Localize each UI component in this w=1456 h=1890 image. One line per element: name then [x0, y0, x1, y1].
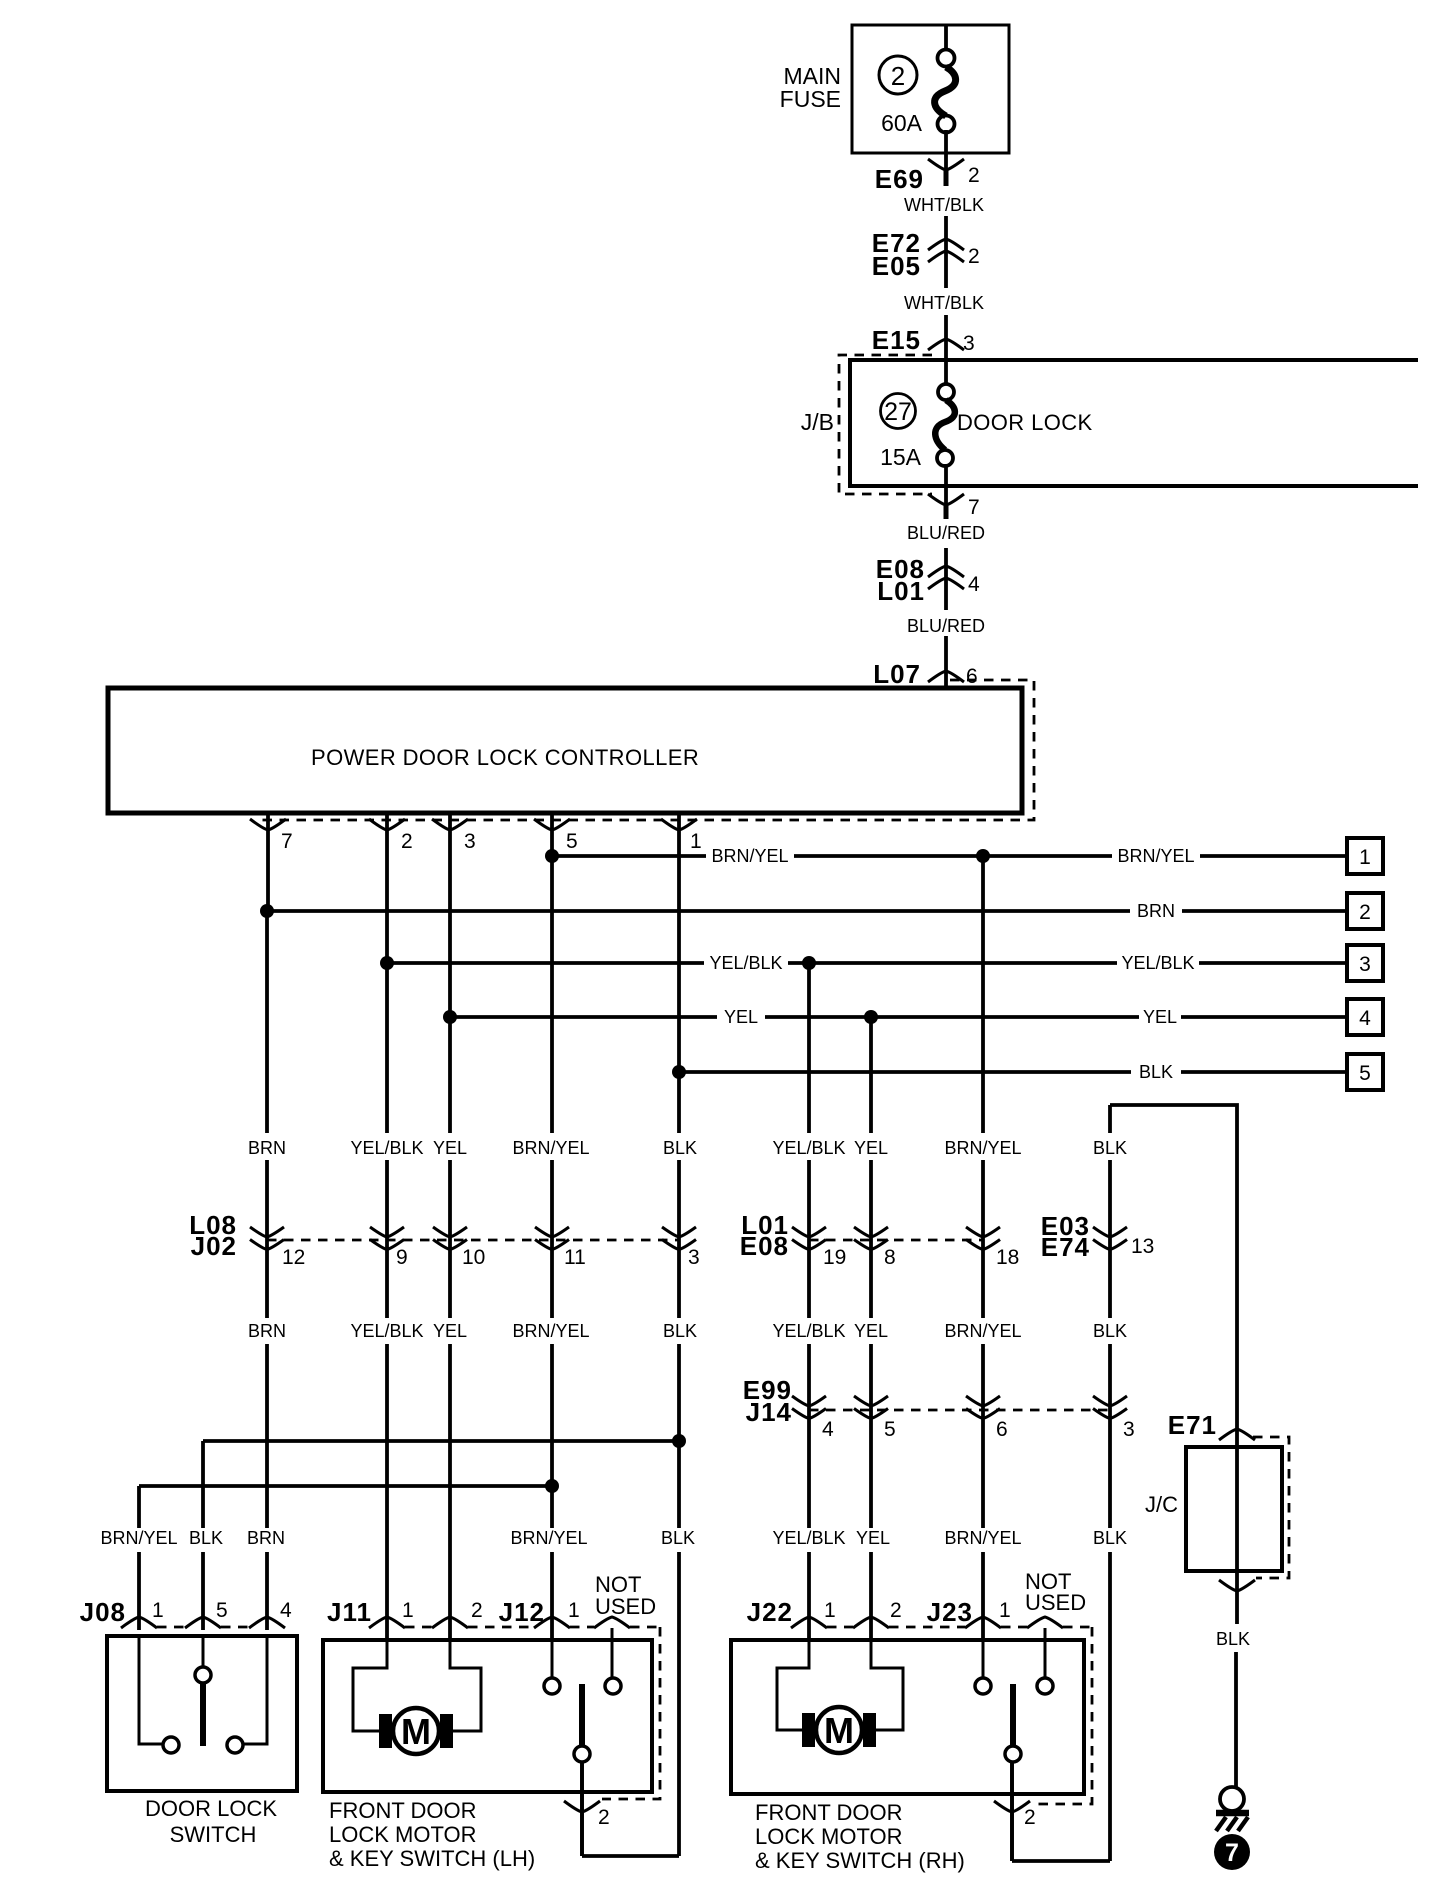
svg-text:J14: J14 [746, 1397, 792, 1427]
svg-text:USED: USED [595, 1594, 656, 1619]
connector L01/E08 pin 8 [854, 1227, 888, 1250]
svg-text:4: 4 [1359, 1007, 1371, 1030]
junction connector J/C box [1186, 1447, 1282, 1571]
connector E15 [928, 339, 964, 350]
wire BLK jog to key switch RH [1012, 1859, 1110, 1863]
svg-text:SWITCH: SWITCH [170, 1822, 257, 1847]
wire key switch RH pin1 [982, 1640, 985, 1678]
svg-text:YEL/BLK: YEL/BLK [1121, 953, 1194, 973]
svg-text:1: 1 [152, 1599, 164, 1622]
key switch RH lever [1010, 1684, 1016, 1746]
svg-text:2: 2 [968, 164, 980, 187]
connector J12 not used pin [594, 1617, 630, 1628]
svg-text:3: 3 [963, 332, 975, 355]
svg-text:WHT/BLK: WHT/BLK [904, 195, 984, 215]
svg-text:E08: E08 [740, 1231, 789, 1261]
svg-text:3: 3 [464, 830, 476, 853]
connector E99/J14 pin 3 [1093, 1396, 1127, 1419]
svg-text:6: 6 [966, 665, 978, 688]
connector J08 pin 5 [185, 1617, 221, 1628]
key switch RH contact notused [1037, 1678, 1053, 1694]
svg-text:YEL: YEL [433, 1138, 467, 1158]
power door lock controller box [108, 688, 1022, 813]
wire J/B to pin 7 [944, 464, 948, 505]
connector J22 pin 1 [791, 1617, 827, 1628]
controller pin 3 [448, 815, 452, 1017]
controller pin 5 [550, 815, 554, 856]
connector J22 pin 2 [853, 1617, 889, 1628]
svg-text:& KEY SWITCH (RH): & KEY SWITCH (RH) [755, 1848, 965, 1873]
svg-text:BLK: BLK [1093, 1321, 1127, 1341]
wire YEL/BLK vertical (pin2 column) [385, 963, 389, 1133]
svg-text:1: 1 [402, 1599, 414, 1622]
svg-text:2: 2 [471, 1599, 483, 1622]
connector J12 dashed extension [602, 1627, 660, 1799]
svg-text:FUSE: FUSE [780, 86, 841, 112]
switch contact right [227, 1737, 243, 1753]
terminal box 3 [1347, 945, 1383, 981]
front door lock motor box RH [731, 1640, 1084, 1794]
svg-text:BRN/YEL: BRN/YEL [944, 1528, 1021, 1548]
key switch LH lever [579, 1684, 585, 1746]
svg-text:USED: USED [1025, 1590, 1086, 1615]
svg-text:BLK: BLK [189, 1528, 223, 1548]
terminal box 4 [1347, 999, 1383, 1035]
wire to L07 [944, 636, 948, 688]
front door lock motor box LH [323, 1640, 652, 1792]
wire YEL/BLK vertical right group [807, 963, 811, 1133]
connector below J/C [1219, 1580, 1255, 1591]
svg-text:7: 7 [968, 496, 980, 519]
svg-text:6: 6 [996, 1418, 1008, 1441]
connector J08 pin 4 [249, 1617, 285, 1628]
terminal box 5 [1347, 1054, 1383, 1090]
wire into main fuse [944, 25, 948, 51]
wire BRN/YEL vertical (pin5 column) [550, 856, 554, 1133]
svg-text:60A: 60A [881, 110, 923, 136]
connector E72/E05 [928, 239, 964, 262]
wire motor RH left [777, 1640, 809, 1730]
connector J11 pin 2 [432, 1617, 468, 1628]
wire BLK vertical (pin1 column) [677, 1072, 681, 1133]
svg-text:18: 18 [996, 1246, 1019, 1269]
wire E69 to E72 [944, 216, 948, 288]
svg-text:DOOR LOCK: DOOR LOCK [957, 410, 1093, 435]
wire motor RH right [871, 1640, 903, 1730]
svg-text:BLK: BLK [1093, 1138, 1127, 1158]
node row2-pin7 [260, 904, 274, 918]
svg-text:BRN: BRN [248, 1138, 286, 1158]
wire J/C to ground [1235, 1591, 1239, 1624]
svg-text:FRONT DOOR: FRONT DOOR [329, 1798, 476, 1823]
J/B dashed outline [839, 355, 932, 494]
svg-text:DOOR LOCK: DOOR LOCK [145, 1796, 277, 1821]
svg-text:YEL: YEL [856, 1528, 890, 1548]
connector J08 pin 1 [121, 1617, 157, 1628]
svg-text:J11: J11 [327, 1597, 372, 1627]
svg-text:BRN/YEL: BRN/YEL [100, 1528, 177, 1548]
svg-text:7: 7 [1225, 1839, 1239, 1867]
svg-text:13: 13 [1131, 1235, 1154, 1258]
svg-text:5: 5 [1359, 1062, 1371, 1085]
node row3-pin2 [380, 956, 394, 970]
svg-text:BRN/YEL: BRN/YEL [944, 1138, 1021, 1158]
wire BRN/YEL vertical right group [981, 856, 985, 1133]
svg-text:POWER DOOR LOCK CONTROLLER: POWER DOOR LOCK CONTROLLER [311, 745, 699, 770]
svg-text:12: 12 [282, 1246, 305, 1269]
svg-text:9: 9 [396, 1246, 408, 1269]
svg-text:BLK: BLK [1093, 1528, 1127, 1548]
svg-text:L07: L07 [873, 659, 921, 689]
svg-text:BLK: BLK [663, 1321, 697, 1341]
svg-text:BRN/YEL: BRN/YEL [711, 846, 788, 866]
wire BRN/YEL link to J08 pin1 [139, 1484, 552, 1488]
node row5-pin1 [672, 1065, 686, 1079]
svg-text:YEL/BLK: YEL/BLK [350, 1138, 423, 1158]
svg-text:E69: E69 [875, 164, 924, 194]
node row4-pin3 [443, 1010, 457, 1024]
svg-text:2: 2 [891, 61, 905, 91]
svg-text:BRN/YEL: BRN/YEL [1117, 846, 1194, 866]
svg-text:2: 2 [401, 830, 413, 853]
fuse number 2 circle [879, 56, 917, 94]
svg-text:5: 5 [566, 830, 578, 853]
key switch LH contact 1 [544, 1678, 560, 1694]
wire BRN vertical (pin7 column) [265, 911, 269, 1133]
key switch RH common [1005, 1746, 1021, 1762]
svg-text:BLK: BLK [1216, 1629, 1250, 1649]
connector J12 pin 2 [564, 1801, 600, 1812]
connector J02 pin 3 [662, 1227, 696, 1250]
connector E99/J14 pin 5 [854, 1396, 888, 1419]
wire J08 pin1 internal [139, 1636, 163, 1744]
MAIN FUSE box [852, 25, 1009, 153]
wire motor LH right [450, 1640, 481, 1731]
svg-text:27: 27 [884, 398, 912, 426]
ground G7 [1220, 1787, 1244, 1811]
svg-text:J02: J02 [191, 1231, 237, 1261]
svg-text:L01: L01 [877, 576, 925, 606]
connector J02 pin 10 [433, 1227, 467, 1250]
node row1-pin5 [545, 849, 559, 863]
wire BLK vertical right group [1108, 1105, 1112, 1133]
svg-text:YEL/BLK: YEL/BLK [772, 1138, 845, 1158]
svg-text:& KEY SWITCH (LH): & KEY SWITCH (LH) [329, 1846, 535, 1871]
connector L07 [928, 671, 964, 682]
svg-text:BRN/YEL: BRN/YEL [512, 1321, 589, 1341]
motor M RH [802, 1713, 815, 1747]
E71 dashed outline [1253, 1437, 1289, 1578]
svg-text:7: 7 [281, 830, 293, 853]
wire key switch LH pin1 [551, 1640, 554, 1678]
connector pin 7 out of J/B [928, 494, 964, 505]
svg-text:5: 5 [884, 1418, 896, 1441]
wire J08 pin4 internal [243, 1636, 267, 1744]
controller dashed outline [255, 680, 1034, 820]
svg-text:J23: J23 [927, 1597, 973, 1627]
svg-text:4: 4 [968, 573, 980, 596]
wire YEL vertical right group [869, 1017, 873, 1133]
connector J23 pin 1 [965, 1617, 1001, 1628]
connector J11/J12 dashed row [405, 1626, 432, 1629]
wire E72 to J/B [944, 315, 948, 385]
svg-text:LOCK MOTOR: LOCK MOTOR [329, 1822, 477, 1847]
connector J02 pin 9 [370, 1227, 404, 1250]
svg-text:1: 1 [999, 1599, 1011, 1622]
svg-text:YEL: YEL [854, 1138, 888, 1158]
switch contact left [163, 1737, 179, 1753]
wire BLK link to J08 pin5 [203, 1439, 679, 1443]
svg-text:BRN/YEL: BRN/YEL [510, 1528, 587, 1548]
terminal box 2 [1347, 893, 1383, 929]
svg-text:4: 4 [280, 1599, 292, 1622]
connector L01/E08 pin 18 [966, 1227, 1000, 1250]
svg-text:BLK: BLK [661, 1528, 695, 1548]
svg-text:YEL: YEL [854, 1321, 888, 1341]
switch lever [200, 1684, 206, 1746]
wire YEL vertical (pin3 column) [448, 1017, 452, 1133]
controller pin 2 [385, 815, 389, 963]
svg-text:BRN/YEL: BRN/YEL [944, 1321, 1021, 1341]
svg-text:YEL: YEL [724, 1007, 758, 1027]
svg-text:M: M [824, 1710, 854, 1751]
svg-text:1: 1 [568, 1599, 580, 1622]
svg-text:M: M [401, 1711, 431, 1752]
controller pin 1 [677, 815, 681, 1072]
svg-text:BLU/RED: BLU/RED [907, 523, 985, 543]
wire through J/C [1235, 1430, 1239, 1591]
svg-text:3: 3 [1359, 953, 1371, 976]
connector J23 pin 2 [994, 1801, 1030, 1812]
key switch RH contact 1 [975, 1678, 991, 1694]
svg-text:YEL/BLK: YEL/BLK [772, 1321, 845, 1341]
motor M LH [379, 1714, 392, 1748]
svg-text:BLK: BLK [1139, 1062, 1173, 1082]
wire key switch LH to pin2 [580, 1762, 584, 1856]
svg-text:E71: E71 [1168, 1410, 1217, 1440]
svg-text:19: 19 [823, 1246, 846, 1269]
svg-text:YEL: YEL [433, 1321, 467, 1341]
row 4 YEL wire [450, 1015, 717, 1019]
svg-text:5: 5 [216, 1599, 228, 1622]
J/B box [850, 360, 1418, 486]
connector J23 not used pin [1027, 1617, 1063, 1628]
svg-text:BRN: BRN [247, 1528, 285, 1548]
svg-text:3: 3 [688, 1246, 700, 1269]
node row1-right [976, 849, 990, 863]
svg-text:10: 10 [462, 1246, 485, 1269]
row 3 YEL/BLK wire [387, 961, 704, 965]
row 1 BRN/YEL wire [552, 854, 706, 858]
node row4-right [864, 1010, 878, 1024]
svg-text:J22: J22 [747, 1597, 793, 1627]
svg-text:FRONT DOOR: FRONT DOOR [755, 1800, 902, 1825]
svg-text:E15: E15 [872, 325, 921, 355]
wire BLK top loop to E71 [1110, 1105, 1237, 1430]
svg-text:8: 8 [884, 1246, 896, 1269]
ground number 7 [1214, 1834, 1250, 1870]
svg-text:2: 2 [968, 245, 980, 268]
connector J02 pin 11 [535, 1227, 569, 1250]
connector J23 dashed extension [1032, 1627, 1092, 1804]
connector J08 dashed row [157, 1626, 185, 1629]
terminal box 1 [1347, 838, 1383, 874]
svg-text:2: 2 [1359, 901, 1371, 924]
svg-text:J12: J12 [499, 1597, 545, 1627]
connector E99/J14 pin 4 [792, 1396, 826, 1419]
connector J12 pin 1 [534, 1617, 570, 1628]
svg-text:YEL/BLK: YEL/BLK [772, 1528, 845, 1548]
svg-text:J/B: J/B [801, 409, 834, 435]
svg-text:4: 4 [822, 1418, 834, 1441]
wire motor LH left [353, 1640, 387, 1731]
svg-text:E74: E74 [1041, 1232, 1090, 1262]
svg-text:E05: E05 [872, 251, 921, 281]
wire BLK jog to key switch LH [582, 1854, 679, 1858]
svg-text:2: 2 [1024, 1806, 1036, 1829]
fuse 2 60A element [938, 50, 955, 67]
door lock switch box J08 [107, 1636, 297, 1791]
controller pin 7 [266, 815, 270, 911]
svg-text:J08: J08 [80, 1597, 126, 1627]
fuse 27 15A element [938, 384, 954, 400]
node row3-right [802, 956, 816, 970]
svg-text:2: 2 [598, 1806, 610, 1829]
svg-text:BLK: BLK [663, 1138, 697, 1158]
row 5 BLK wire [679, 1070, 1131, 1074]
svg-text:J/C: J/C [1145, 1492, 1178, 1517]
key switch LH contact notused [605, 1678, 621, 1694]
svg-text:1: 1 [1359, 846, 1371, 869]
svg-text:YEL/BLK: YEL/BLK [709, 953, 782, 973]
connector J11 pin 1 [369, 1617, 405, 1628]
svg-text:BLU/RED: BLU/RED [907, 616, 985, 636]
wire key switch RH to pin2 [1010, 1762, 1014, 1861]
svg-text:15A: 15A [880, 444, 922, 470]
svg-text:WHT/BLK: WHT/BLK [904, 293, 984, 313]
connector E99/J14 pin 6 [966, 1396, 1000, 1419]
connector J22/J23 dashed row [827, 1626, 853, 1629]
switch common contact [195, 1667, 211, 1683]
key switch LH common [574, 1746, 590, 1762]
svg-text:YEL: YEL [1143, 1007, 1177, 1027]
wire J08 pin5 internal [202, 1636, 205, 1667]
connector E08/L01 [928, 566, 964, 589]
node BRN/YEL junction to J08 [545, 1479, 559, 1493]
svg-text:BRN: BRN [248, 1321, 286, 1341]
svg-text:BRN/YEL: BRN/YEL [512, 1138, 589, 1158]
connector E69 [928, 159, 964, 170]
svg-text:YEL/BLK: YEL/BLK [350, 1321, 423, 1341]
fuse number 27 circle [881, 394, 916, 429]
wire to E08/L01 [944, 548, 948, 610]
node BLK junction to J08 [672, 1434, 686, 1448]
svg-text:BRN: BRN [1137, 901, 1175, 921]
svg-text:11: 11 [564, 1246, 586, 1269]
connector L01/E08 pin 19 [792, 1227, 826, 1250]
svg-text:1: 1 [690, 830, 702, 853]
svg-text:1: 1 [824, 1599, 836, 1622]
row 2 BRN wire [267, 909, 1130, 913]
svg-text:3: 3 [1123, 1418, 1135, 1441]
connector J02 pin 12 [250, 1227, 284, 1250]
svg-text:2: 2 [890, 1599, 902, 1622]
wire fuse to E69 [944, 130, 948, 170]
svg-text:LOCK MOTOR: LOCK MOTOR [755, 1824, 903, 1849]
